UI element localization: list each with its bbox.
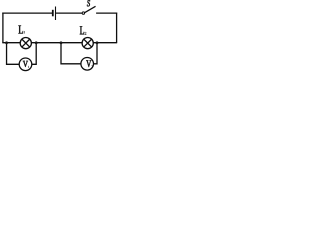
label L1 [18,25,22,33]
wire top left horizontal [2,12,52,14]
wire left vertical [2,13,4,43]
wire switch to top right [96,12,117,14]
wire bottom left segment [2,42,20,44]
label L1 subscript 1 [23,31,26,33]
switch S [82,6,95,14]
label L2 subscript 2 [85,32,87,35]
label V1 subscript 1 [27,66,30,68]
label S [87,0,90,6]
label V1 [23,61,28,67]
junction node right of L2 [96,41,99,44]
voltmeter V2 [81,58,94,71]
lamp L2 [82,38,93,49]
lamp L1 [20,38,31,49]
wire between lamps [31,42,82,44]
wire voltmeter V1 branch left [7,43,20,65]
junction node right of L1 [35,41,38,44]
label V2 [86,60,91,67]
wire right vertical [116,13,118,43]
label L2 [80,26,84,34]
wire bottom right segment [93,42,117,44]
wire battery to switch [56,12,82,14]
label V2 subscript 2 [92,65,93,67]
voltmeter V1 [19,58,32,71]
junction node left of L2 [60,41,63,44]
wire voltmeter V2 branch right [93,43,97,64]
junction node left of L1 [5,41,8,44]
battery cell [53,7,56,21]
wire voltmeter V2 branch left [61,43,81,64]
wire voltmeter V1 branch right [32,43,36,65]
